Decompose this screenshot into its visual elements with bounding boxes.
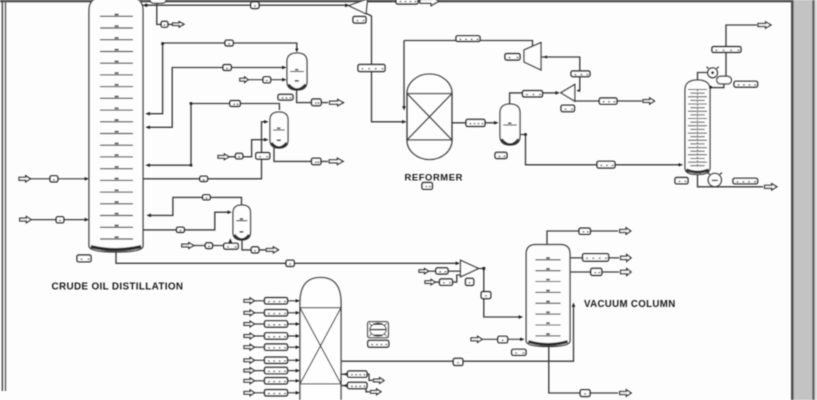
- wire feed 2: [31, 219, 86, 221]
- wire compressor discharge: [541, 57, 580, 91]
- stabilizer trays: [688, 90, 707, 169]
- wire stripper1 bottoms: [274, 148, 328, 162]
- wire stabilizer overhead: [698, 73, 708, 81]
- stream box stabilizer bottoms: [733, 178, 758, 184]
- separator V-101: [500, 104, 520, 145]
- wire steam stripper1: [229, 140, 266, 157]
- reboiler E-100 circle: [708, 173, 722, 187]
- furnace feed arrow 5: [244, 344, 255, 350]
- arrowhead into expander: [345, 4, 349, 8]
- stripper1 bottoms product arrow: [329, 158, 343, 164]
- stream box under recycle: [368, 340, 389, 347]
- reformer reactor R-100 shell: [407, 74, 452, 160]
- arrowhead feed 2 into column: [85, 218, 89, 222]
- arrowhead vacuum feed: [519, 315, 523, 319]
- stream box mixer label: [466, 278, 474, 285]
- stream box wire A: [225, 40, 233, 46]
- stream box vacuum label: [512, 349, 526, 355]
- wire mixer2 outlet gas: [575, 100, 642, 102]
- arrowhead furnace feed 8: [296, 379, 300, 383]
- junction stripper1 overhead: [190, 102, 193, 105]
- wire draw B to flash drum: [147, 68, 285, 128]
- arrowhead into flash drum top: [295, 49, 298, 53]
- wire furnace feed 2: [255, 312, 298, 314]
- steam arrow stripper1: [218, 154, 229, 160]
- arrowhead return into column: [146, 163, 150, 167]
- mixer MIX-100 triangle: [461, 260, 479, 277]
- stripper2 bottoms product arrow: [266, 247, 278, 253]
- arrowhead furnace feed 6: [296, 358, 300, 362]
- stream box furnace feed 3: [265, 321, 288, 327]
- wire furnace feed 4: [255, 335, 298, 337]
- vacuum steam arrow: [471, 336, 482, 342]
- gas product arrow: [643, 98, 655, 104]
- wire furnace product 2: [341, 374, 373, 380]
- stream box stripper1 bottoms: [312, 158, 321, 164]
- arrowhead furnace feed 7: [296, 369, 300, 373]
- furnace feed arrow 7: [244, 368, 255, 374]
- stream box distillate: [161, 21, 168, 27]
- furnace product 3 arrow: [371, 389, 382, 395]
- distillate product arrow: [173, 22, 185, 27]
- wire stripper2 bottoms: [242, 240, 266, 250]
- side draw 1 product arrow: [621, 254, 632, 261]
- arrowhead into separator: [494, 121, 498, 125]
- feed stream 2 arrow: [20, 217, 32, 223]
- wire stripper1 overhead: [191, 104, 279, 111]
- arrowhead vacuum steam: [520, 337, 524, 341]
- condenser pump P-100 circle: [707, 67, 719, 78]
- stream box stripper2 overhead: [203, 195, 211, 200]
- side draw 2 product arrow: [621, 269, 632, 276]
- stream box separator vapor: [523, 91, 543, 97]
- wire compressor suction: [404, 41, 533, 47]
- wire naphtha return: [147, 104, 192, 166]
- arrowhead draw B into column: [146, 125, 150, 129]
- wire stripper2 overhead: [148, 197, 242, 215]
- furnace feed arrow 3: [244, 321, 255, 327]
- stream box furnace product 3: [348, 382, 368, 388]
- junction mixer outlet: [482, 267, 485, 270]
- wire transfer line to vacuum column: [341, 306, 574, 362]
- arrowhead draw A into column: [146, 112, 150, 116]
- arrowhead furnace product 3 at wall: [343, 384, 347, 387]
- wire stabilizer bottoms: [698, 175, 764, 187]
- arrowhead into reformer dome: [402, 106, 406, 110]
- stream box beside drum: [734, 81, 758, 87]
- stream box on reformer feed drop: [358, 65, 385, 72]
- wire vapor draw A: [147, 43, 297, 114]
- furnace feed arrow 6: [244, 357, 255, 363]
- stream box vacuum steam: [498, 336, 508, 343]
- wire mixer input 2: [429, 270, 461, 272]
- vacuum overhead product arrow: [620, 228, 631, 235]
- vacuum bottoms product arrow: [620, 390, 632, 397]
- product arrow top cut: [420, 0, 439, 6]
- arrowhead furnace feed 9: [296, 391, 300, 395]
- stream box drum vapor: [712, 47, 741, 53]
- arrowhead furnace feed 1: [296, 299, 300, 303]
- svg-text:CRUDE OIL DISTILLATION: CRUDE OIL DISTILLATION: [52, 282, 184, 293]
- wire furnace feed 8: [255, 380, 298, 382]
- stream box side draw 2: [591, 268, 602, 275]
- steam arrow stripper2: [182, 243, 194, 249]
- side stripper T-103: [233, 205, 251, 240]
- stream box compressor label: [505, 54, 520, 60]
- wire feed 1: [31, 178, 87, 180]
- stream box vacuum bottoms: [580, 390, 590, 397]
- steam arrow to flash drum: [240, 77, 248, 83]
- wire reflux return: [711, 84, 724, 88]
- arrowhead feed 1 into column: [85, 177, 89, 181]
- stream box steam flash: [263, 77, 271, 83]
- vacuum column bottom dark band: [528, 342, 567, 345]
- mixer MIX-101 triangle: [561, 84, 575, 101]
- stabilizer column T-101 shell: [685, 80, 710, 175]
- stream box stripper2 bottoms: [251, 247, 259, 253]
- wire mixer input 3: [435, 275, 460, 282]
- arrowhead reformer feed: [402, 120, 406, 124]
- stream box reformer effluent: [466, 119, 485, 126]
- wire separator liquid to stabilizer: [520, 135, 680, 165]
- stream box furnace feed 1: [265, 298, 288, 304]
- stream box furnace feed 9: [265, 390, 288, 396]
- stream box furnace feed 7: [265, 367, 288, 373]
- furnace feed arrow 2: [244, 310, 255, 316]
- recycle block RCY-1: [368, 322, 389, 338]
- furnace feed arrow 4: [244, 333, 255, 339]
- wire vacuum bottoms: [549, 347, 618, 394]
- junction naphtha return bend: [190, 164, 193, 167]
- mixer input 2 arrow: [419, 269, 429, 274]
- right gray scrollbar strip: [791, 0, 817, 400]
- arrowhead discharge into mixer2: [576, 89, 580, 92]
- arrowhead stripper1 feed: [264, 120, 268, 124]
- stream box separator label: [495, 152, 507, 158]
- furnace feed arrow 1: [244, 298, 255, 304]
- arrowhead into flash drum left: [282, 66, 286, 70]
- stabilizer gas product arrow: [758, 22, 771, 28]
- junction reflux at column: [709, 86, 712, 89]
- stream box mixer input 3: [440, 279, 453, 285]
- wire vacuum side draw 2: [570, 271, 619, 273]
- stream box transfer line: [453, 358, 463, 365]
- reflux drum D-100: [717, 76, 732, 84]
- wire furnace feed 9: [255, 392, 298, 394]
- stream box furnace feed 4: [265, 333, 288, 339]
- page top border line: [0, 0, 817, 2]
- stream box flash bottoms label: [278, 94, 293, 100]
- wire recycle into reformer dome: [403, 41, 405, 108]
- wire furnace feed 1: [255, 300, 298, 302]
- junction at column top: [145, 4, 148, 7]
- arrowhead into stabilizer: [679, 163, 683, 167]
- stream box furnace feed 6: [265, 357, 288, 363]
- wire flash drum bottoms: [297, 90, 328, 103]
- flash drum V-100: [287, 53, 307, 90]
- stream box under reformer label: [422, 183, 432, 190]
- stream box mixer2 outlet: [599, 98, 617, 104]
- stream box compressor suction: [456, 36, 480, 42]
- arrowhead stripper2 feed: [227, 210, 231, 214]
- stream box feed 1: [50, 176, 58, 182]
- stream box flash bottoms: [312, 99, 322, 106]
- furnace product 2 arrow: [374, 378, 385, 384]
- wire mixer outlet to vacuum column: [479, 269, 521, 318]
- wire overhead vapor to expander: [142, 4, 349, 6]
- stream box under expander: [353, 17, 366, 24]
- wire expander to reformer: [367, 14, 404, 122]
- junction separator liquid: [524, 133, 527, 136]
- arrowhead crude bottoms into mixer: [456, 261, 460, 265]
- stabilizer bottom dark band: [686, 170, 708, 172]
- arrowhead stripper2 vapor into column: [147, 214, 151, 218]
- wire furnace feed 6: [255, 359, 298, 361]
- furnace internals X: [300, 308, 341, 384]
- arrowhead furnace feed 2: [296, 311, 300, 315]
- arrowhead furnace feed 4: [296, 334, 300, 338]
- stream box steam stripper2 b: [224, 243, 239, 249]
- stream box crude bottoms: [286, 260, 294, 266]
- arrowhead steam into stripper1: [264, 138, 268, 142]
- stream box on mixer outlet drop: [481, 292, 491, 299]
- stream box side draw 1: [583, 254, 609, 261]
- stream box vacuum overhead: [579, 228, 590, 234]
- wire separator vapor to mixer: [510, 93, 557, 104]
- stream box stripper1 feed: [200, 176, 208, 181]
- vacuum column trays: [535, 257, 560, 336]
- arrowhead furnace product 2 at wall: [343, 373, 347, 376]
- arrowhead into mixer2: [555, 91, 559, 95]
- furnace feed arrow 9: [244, 390, 255, 396]
- stream box stabilizer feed: [597, 161, 615, 168]
- arrowhead at compressor discharge: [543, 55, 547, 58]
- svg-text:VACUUM COLUMN: VACUUM COLUMN: [584, 299, 676, 310]
- column T-100 trays: [100, 14, 133, 239]
- wire stripper1 feed: [143, 122, 266, 179]
- left window border double line: [2, 0, 7, 391]
- wire vacuum side draw 1: [570, 257, 619, 259]
- feed stream 1 arrow: [19, 176, 31, 182]
- wire furnace feed 5: [255, 346, 298, 348]
- furnace F-100 shell: [300, 278, 341, 400]
- stream box stripper1 overhead: [230, 101, 240, 107]
- wire vacuum steam: [482, 338, 521, 340]
- furnace feed arrow 8: [244, 378, 255, 384]
- arrowhead transfer into vacuum column: [572, 303, 576, 307]
- stream box furnace feed 8: [265, 378, 288, 384]
- stream box on discharge drop: [571, 71, 590, 77]
- stream box steam stripper2 a: [205, 243, 212, 249]
- stream box stripper2 feed: [177, 227, 185, 232]
- wire furnace product 3: [341, 386, 370, 392]
- stream box on stripper1 riser: [256, 153, 270, 160]
- stabilizer bottoms product arrow: [765, 184, 777, 190]
- svg-text:REFORMER: REFORMER: [405, 172, 463, 183]
- arrowhead steam into stripper2: [228, 238, 232, 242]
- stream box bottoms label: [77, 255, 91, 262]
- wire distillate product: [157, 3, 172, 24]
- stream box mixer input 2: [436, 268, 448, 274]
- wire reformer effluent: [452, 122, 496, 124]
- stream box stabilizer label: [675, 178, 688, 184]
- stream box overhead: [251, 2, 259, 9]
- wire stripper2 feed: [143, 212, 230, 230]
- column T-100 crude distillation tower shell: [89, 0, 143, 252]
- stream box furnace feed 2: [265, 310, 288, 316]
- arrowhead furnace feed 3: [296, 322, 300, 326]
- stream box feed 2: [56, 217, 64, 223]
- stream box wire B: [223, 65, 231, 71]
- reformer bed X lines: [407, 94, 452, 141]
- side stripper T-102: [270, 112, 288, 148]
- wire drum vapor up: [726, 25, 757, 76]
- compressor K-100: [524, 43, 541, 71]
- stream box under mixer2: [561, 105, 575, 111]
- mixer input 3 arrow: [425, 279, 435, 284]
- column T-100 bottom head dark band: [91, 247, 141, 250]
- wire expander top outlet (cut): [368, 1, 392, 3]
- junction on wire A: [161, 42, 164, 45]
- wire vacuum overhead: [547, 231, 618, 245]
- wire steam to flash drum: [248, 79, 284, 81]
- arrowhead steam into flash drum: [282, 78, 286, 82]
- wire crude bottoms to mixer: [116, 252, 458, 264]
- wire furnace feed 7: [255, 370, 298, 372]
- arrowhead furnace feed 5: [296, 345, 300, 349]
- stream box steam stripper1: [235, 153, 242, 158]
- vacuum column T-104 shell: [526, 245, 570, 347]
- expander K-101 triangle: [349, 0, 368, 14]
- stream box furnace feed 5: [265, 344, 288, 350]
- stream box top cut: [396, 0, 418, 4]
- wire furnace feed 3: [255, 323, 298, 325]
- flash bottoms product arrow: [330, 99, 344, 105]
- condenser drum at column top (cut): [150, 0, 166, 3]
- stream box furnace product 2: [348, 371, 368, 377]
- wire steam stripper2: [194, 241, 230, 246]
